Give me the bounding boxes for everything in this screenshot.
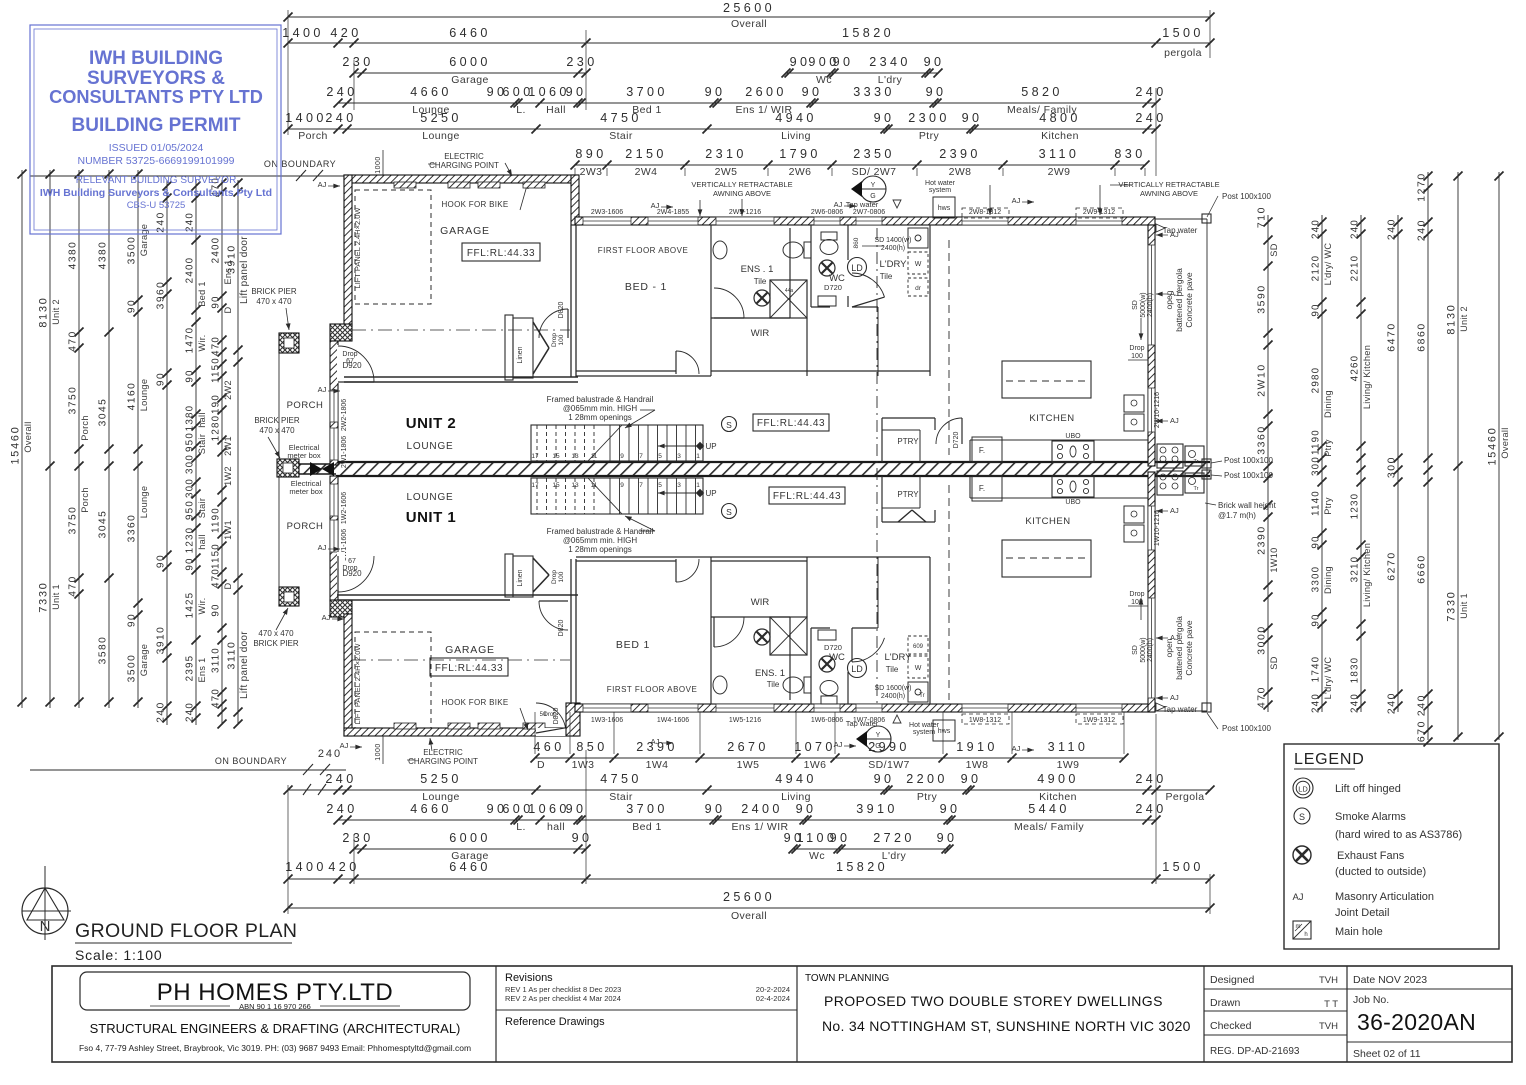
svg-text:1: 1 <box>696 453 700 460</box>
svg-text:(hard wired to as AS3786): (hard wired to as AS3786) <box>1335 829 1462 841</box>
svg-text:PTRY: PTRY <box>897 490 919 499</box>
unit 1 room label ENS.1 <box>755 668 785 689</box>
unit 1 ptry room <box>882 476 935 522</box>
unit 1 entry door D920 <box>337 552 374 592</box>
building permit stamp box <box>30 25 281 234</box>
svg-text:9: 9 <box>620 482 624 489</box>
svg-text:1W10: 1W10 <box>1269 547 1279 572</box>
svg-text:460: 460 <box>533 740 564 754</box>
svg-text:90: 90 <box>1311 303 1322 316</box>
svg-text:L'dry/ WC: L'dry/ WC <box>1323 243 1333 286</box>
svg-text:11: 11 <box>591 482 598 489</box>
svg-text:RELEVANT BUILDING SURVEYOR: RELEVANT BUILDING SURVEYOR <box>76 175 237 186</box>
svg-text:1740: 1740 <box>1311 656 1322 683</box>
dim row bottom wc/ldry line <box>789 845 954 854</box>
svg-text:1W4-1606: 1W4-1606 <box>657 717 689 724</box>
svg-text:240: 240 <box>326 802 357 816</box>
svg-text:44a: 44a <box>785 288 794 294</box>
svg-text:90: 90 <box>156 554 167 568</box>
svg-text:3045: 3045 <box>98 510 109 539</box>
svg-text:3110: 3110 <box>1048 740 1089 754</box>
svg-text:SD 1600(w): SD 1600(w) <box>875 685 912 692</box>
brick pier label top <box>251 287 297 330</box>
pergola posts middle <box>1202 459 1211 479</box>
svg-text:2W4: 2W4 <box>635 166 658 178</box>
svg-text:@065mm min. HIGH: @065mm min. HIGH <box>563 404 638 413</box>
dim col left lift panel door labels <box>226 179 251 729</box>
north arrow symbol <box>22 866 71 940</box>
unit 2 ffl label RL 44.43 <box>753 414 829 431</box>
unit 1 garage bottom wall piers <box>394 723 416 729</box>
svg-text:90: 90 <box>185 557 196 570</box>
svg-text:h: h <box>1304 932 1307 938</box>
svg-text:90: 90 <box>874 111 895 125</box>
svg-text:Tr: Tr <box>1194 459 1199 465</box>
svg-text:UNIT 2: UNIT 2 <box>406 415 457 432</box>
svg-text:Hall: Hall <box>546 104 566 116</box>
window dim extension lines <box>535 168 1145 754</box>
svg-text:6000: 6000 <box>449 55 491 69</box>
svg-text:AJ: AJ <box>1170 633 1179 642</box>
svg-text:1150: 1150 <box>211 357 222 383</box>
svg-text:2400(h): 2400(h) <box>1147 638 1154 662</box>
svg-text:REV 1 As per checklist 8 Dec: REV 1 As per checklist 8 Dec 2023 <box>505 985 621 994</box>
svg-text:Lounge: Lounge <box>139 486 149 518</box>
unit 2 wc toilet <box>820 232 838 255</box>
svg-text:NUMBER 53725-6669199101999: NUMBER 53725-6669199101999 <box>77 155 234 167</box>
unit 1 ens.1 basin <box>713 676 727 694</box>
unit 1 wc exhaust fan <box>819 656 835 672</box>
svg-text:1060: 1060 <box>528 802 570 816</box>
svg-text:1500: 1500 <box>1162 860 1204 874</box>
svg-text:240: 240 <box>1350 693 1361 713</box>
svg-text:2400(h): 2400(h) <box>1147 293 1154 317</box>
svg-text:Overall: Overall <box>1500 427 1510 458</box>
svg-text:470 x 470: 470 x 470 <box>258 629 294 638</box>
svg-text:300: 300 <box>1387 456 1398 478</box>
svg-text:7: 7 <box>639 482 643 489</box>
svg-text:Exhaust Fans: Exhaust Fans <box>1337 850 1405 862</box>
svg-text:Post 100x100: Post 100x100 <box>1224 456 1273 465</box>
svg-text:1 28mm openings: 1 28mm openings <box>568 413 632 422</box>
svg-text:LEGEND: LEGEND <box>1294 751 1365 768</box>
svg-text:Brick wall height: Brick wall height <box>1218 501 1277 510</box>
electrical meter box labels <box>287 443 334 496</box>
unit 2 ffl label RL 44.33 <box>462 243 540 261</box>
electric charging point label top <box>428 152 512 176</box>
svg-text:Concrete pave: Concrete pave <box>1184 272 1194 328</box>
unit 2 main top exterior wall <box>575 217 1155 225</box>
brick pier label bottom <box>253 608 299 648</box>
svg-text:Hot water: Hot water <box>909 722 940 729</box>
svg-text:609: 609 <box>913 644 924 650</box>
svg-text:PORCH: PORCH <box>287 400 324 411</box>
svg-text:S: S <box>726 507 732 517</box>
unit 2 ens.1 exhaust fan <box>754 290 770 306</box>
svg-text:T T: T T <box>1324 999 1338 1010</box>
svg-text:AJ: AJ <box>1170 289 1179 298</box>
svg-text:1070: 1070 <box>794 740 836 754</box>
svg-text:SD: SD <box>1132 300 1139 310</box>
svg-text:240: 240 <box>1135 85 1166 99</box>
svg-text:LD: LD <box>851 664 863 674</box>
tap water right unit 2 <box>1156 224 1198 235</box>
unit 2 bed wing left wall <box>571 225 576 377</box>
svg-text:4380: 4380 <box>98 241 109 270</box>
awning label left <box>691 180 792 216</box>
unit 1 corner pier at porch <box>330 600 352 617</box>
svg-text:WIR: WIR <box>751 597 770 608</box>
svg-text:1190: 1190 <box>211 507 222 533</box>
unit 2 kitchen island bench <box>1002 361 1091 398</box>
svg-text:L.: L. <box>516 104 526 116</box>
unit 2 corner pier at porch <box>330 324 352 341</box>
svg-text:90: 90 <box>961 772 982 786</box>
svg-text:1W3: 1W3 <box>572 759 595 771</box>
unit 1 fridge space F <box>972 476 1002 501</box>
svg-text:2390: 2390 <box>1257 525 1268 555</box>
svg-text:17: 17 <box>531 482 539 489</box>
unit 2 wc exhaust fan <box>819 260 835 276</box>
dim col right overall 15460 <box>1487 172 1511 742</box>
svg-text:AJ: AJ <box>318 180 327 189</box>
boundary line bottom with ON BOUNDARY label <box>30 748 346 775</box>
svg-text:S: S <box>1299 812 1305 822</box>
svg-text:UNIT 1: UNIT 1 <box>406 509 457 526</box>
svg-text:Bed 1: Bed 1 <box>197 281 207 307</box>
svg-text:13: 13 <box>571 482 579 489</box>
svg-text:HOOK FOR BIKE: HOOK FOR BIKE <box>441 200 508 209</box>
svg-text:CBS-U 53725: CBS-U 53725 <box>127 200 186 211</box>
svg-text:FFL:RL:44.43: FFL:RL:44.43 <box>757 418 825 429</box>
svg-text:2W5: 2W5 <box>715 166 738 178</box>
unit 2 kitchen bench along party wall <box>970 440 1148 462</box>
svg-text:470 x 470: 470 x 470 <box>259 426 295 435</box>
svg-text:3500: 3500 <box>127 654 138 683</box>
svg-text:240: 240 <box>1311 219 1322 239</box>
svg-text:AJ: AJ <box>340 741 349 750</box>
svg-text:6460: 6460 <box>449 26 491 40</box>
svg-text:Scale: 1:100: Scale: 1:100 <box>75 947 162 963</box>
svg-text:FFL:RL:44.33: FFL:RL:44.33 <box>435 663 503 674</box>
svg-text:Wc: Wc <box>809 850 825 862</box>
stamp text IWH BUILDING SURVEYORS & CONSULTANTS <box>49 48 263 107</box>
svg-text:2W6-0806: 2W6-0806 <box>811 209 843 216</box>
svg-text:L.: L. <box>516 821 526 833</box>
legend masonry articulation <box>1292 891 1434 919</box>
svg-text:Checked: Checked <box>1210 1020 1252 1032</box>
svg-text:ABN 90 1 16 970 266: ABN 90 1 16 970 266 <box>239 1002 311 1011</box>
svg-text:100: 100 <box>558 334 565 345</box>
svg-text:7330: 7330 <box>1446 590 1458 621</box>
svg-text:1W10-1216: 1W10-1216 <box>1154 510 1161 546</box>
svg-text:Garage: Garage <box>139 224 149 256</box>
svg-text:SD: SD <box>1132 645 1139 655</box>
svg-text:Tap water: Tap water <box>846 719 879 728</box>
pergola outline right <box>1155 219 1207 711</box>
svg-text:25600: 25600 <box>723 1 775 15</box>
dim row top windows 2W3-2W9 <box>571 147 1150 178</box>
svg-text:3910: 3910 <box>226 244 238 274</box>
svg-text:7: 7 <box>639 453 643 460</box>
svg-text:Drop: Drop <box>342 351 357 358</box>
svg-text:15820: 15820 <box>836 860 888 874</box>
svg-text:860: 860 <box>853 237 860 248</box>
svg-text:240: 240 <box>325 772 356 786</box>
svg-text:1W9: 1W9 <box>1057 759 1080 771</box>
svg-text:TVH: TVH <box>1319 1021 1338 1032</box>
svg-text:4660: 4660 <box>410 85 452 99</box>
svg-text:2310: 2310 <box>705 147 747 161</box>
svg-text:2W6: 2W6 <box>789 166 812 178</box>
stamp issued and number lines <box>77 142 234 167</box>
svg-text:1230: 1230 <box>1350 493 1361 520</box>
svg-text:02-4-2024: 02-4-2024 <box>756 994 790 1003</box>
hook for bike label bottom <box>441 698 528 730</box>
svg-text:1790: 1790 <box>779 147 821 161</box>
unit 2 room label UNIT 2 / LOUNGE <box>406 415 457 452</box>
unit 1 garage dash-dot datum lines <box>352 659 570 661</box>
svg-text:SD: SD <box>1269 243 1279 256</box>
svg-text:5: 5 <box>658 482 662 489</box>
svg-text:W: W <box>915 261 922 268</box>
svg-text:ENS . 1: ENS . 1 <box>741 264 774 275</box>
unit 2 ens.1 door D820 <box>714 288 744 318</box>
svg-text:Concrete pave: Concrete pave <box>1184 620 1194 676</box>
svg-text:1W8: 1W8 <box>966 759 989 771</box>
svg-text:240: 240 <box>156 211 167 233</box>
svg-text:15: 15 <box>552 482 560 489</box>
svg-text:AJ: AJ <box>651 201 660 210</box>
svg-text:1W8-1312: 1W8-1312 <box>969 717 1001 724</box>
svg-text:90: 90 <box>830 831 851 845</box>
svg-text:2150: 2150 <box>625 147 667 161</box>
extension lines top and bottom <box>288 10 1210 914</box>
svg-text:ISSUED 01/05/2024: ISSUED 01/05/2024 <box>109 142 204 154</box>
outdoor kitchen unit 2 <box>1157 444 1204 468</box>
unit 2 garage-lounge divider wall <box>344 377 578 382</box>
svg-text:F.: F. <box>979 484 985 493</box>
svg-text:Ptry: Ptry <box>919 130 940 142</box>
dim col left 3960/3910 <box>156 180 172 725</box>
svg-text:SURVEYORS &: SURVEYORS & <box>87 68 225 89</box>
svg-text:2400: 2400 <box>211 237 222 264</box>
svg-text:1400: 1400 <box>282 26 324 40</box>
svg-text:90: 90 <box>962 111 983 125</box>
svg-text:3750: 3750 <box>68 506 79 535</box>
svg-text:Meals/ Family: Meals/ Family <box>1014 821 1084 833</box>
unit 2 bed 1 south wall <box>576 351 711 376</box>
svg-text:Stair: Stair <box>197 498 207 518</box>
dim col right 6470/6270 <box>1387 215 1403 714</box>
svg-text:9: 9 <box>620 453 624 460</box>
svg-text:4380: 4380 <box>68 241 79 270</box>
svg-text:Unit 2: Unit 2 <box>51 299 61 325</box>
electric charging point label bottom <box>407 738 478 766</box>
svg-text:Wir.: Wir. <box>197 597 207 614</box>
unit 2 room label WC + D720 <box>824 273 845 292</box>
svg-text:@065mm min. HIGH: @065mm min. HIGH <box>563 536 638 545</box>
unit 1 kitchen sink at right wall <box>1124 506 1144 542</box>
svg-text:Drop: Drop <box>1129 345 1144 352</box>
unit 1 ens.1 door D720 <box>714 617 744 647</box>
svg-text:90: 90 <box>705 802 726 816</box>
unit 2 front wall with entry windows <box>330 341 338 465</box>
dim col right 4260/3210 <box>1350 215 1373 713</box>
svg-text:FFL:RL:44.43: FFL:RL:44.43 <box>773 491 841 502</box>
svg-text:BRICK PIER: BRICK PIER <box>254 416 300 425</box>
svg-text:Lift panel door: Lift panel door <box>239 631 250 699</box>
svg-text:240: 240 <box>1417 694 1428 716</box>
svg-text:950: 950 <box>185 500 196 520</box>
svg-text:(ducted to outside): (ducted to outside) <box>1335 866 1426 878</box>
open battened pergola label unit 1 <box>1164 616 1194 680</box>
unit 2 bulkhead dashed line <box>948 240 950 455</box>
svg-text:S: S <box>726 420 732 430</box>
svg-text:15460: 15460 <box>1487 426 1499 465</box>
svg-text:AJ: AJ <box>322 613 331 622</box>
svg-text:6860: 6860 <box>1417 322 1428 352</box>
unit 1 wc door lift-off hinge LD <box>848 628 885 678</box>
svg-text:Lift off hinged: Lift off hinged <box>1335 783 1401 795</box>
unit 1 room label UNIT 1 / LOUNGE <box>406 492 457 526</box>
svg-text:11: 11 <box>591 453 598 460</box>
svg-text:1400: 1400 <box>285 111 327 125</box>
gas water meter symbol bottom <box>856 726 891 752</box>
unit 1 right wall drop label <box>1128 591 1148 606</box>
svg-text:Y: Y <box>876 732 881 739</box>
svg-text:2210: 2210 <box>1350 255 1361 282</box>
unit 2 ptry room <box>882 418 962 462</box>
svg-text:Main hole: Main hole <box>1335 926 1383 938</box>
svg-text:Ptry: Ptry <box>1323 497 1333 515</box>
unit 2 wc walls <box>811 225 848 307</box>
svg-text:3960: 3960 <box>156 281 167 310</box>
svg-text:Lounge: Lounge <box>139 379 149 411</box>
svg-text:5: 5 <box>658 453 662 460</box>
svg-text:GARAGE: GARAGE <box>445 644 495 656</box>
svg-text:1W2: 1W2 <box>223 466 233 486</box>
dim col left bed/wir/hall/stair <box>185 180 208 725</box>
svg-text:3700: 3700 <box>626 802 668 816</box>
unit 2 right exterior wall <box>1148 225 1155 466</box>
svg-text:4160: 4160 <box>127 382 138 411</box>
svg-text:1: 1 <box>696 482 700 489</box>
aj markers right wall <box>1156 230 1179 702</box>
svg-text:1W9-1312: 1W9-1312 <box>1083 717 1115 724</box>
unit 1 ffl label RL 44.43 <box>769 487 845 504</box>
svg-text:100: 100 <box>558 571 565 582</box>
porch pier top <box>279 333 299 353</box>
dim col left overall 15460 <box>10 170 34 709</box>
svg-text:hws: hws <box>938 205 951 212</box>
unit 1 bed wing left wall <box>571 559 576 704</box>
unit 1 bottom wall windows 1W3-1W9 <box>583 704 631 712</box>
svg-text:4750: 4750 <box>600 772 642 786</box>
svg-text:Kitchen: Kitchen <box>1041 130 1079 142</box>
svg-text:Garage: Garage <box>139 644 149 676</box>
svg-text:4750: 4750 <box>600 111 642 125</box>
svg-text:470: 470 <box>68 330 79 352</box>
svg-text:470: 470 <box>211 336 222 356</box>
awning dashed boxes at windows <box>962 208 1123 724</box>
svg-text:230: 230 <box>342 55 373 69</box>
svg-text:4800: 4800 <box>1039 111 1081 125</box>
unit 1 garage-lounge divider wall <box>337 595 578 600</box>
svg-text:470: 470 <box>211 688 222 708</box>
svg-text:LOUNGE: LOUNGE <box>406 492 453 503</box>
boundary break marks bottom <box>303 784 326 795</box>
svg-text:Stair: Stair <box>609 130 633 142</box>
svg-text:1280: 1280 <box>211 415 222 442</box>
svg-text:5250: 5250 <box>420 772 462 786</box>
svg-text:5820: 5820 <box>1021 85 1063 99</box>
svg-text:8130: 8130 <box>38 296 50 327</box>
svg-text:3000: 3000 <box>1257 625 1268 655</box>
svg-text:Bed 1: Bed 1 <box>632 821 661 833</box>
svg-text:N: N <box>40 918 51 935</box>
revisions block <box>496 972 797 1028</box>
svg-text:Ens 1/ WIR: Ens 1/ WIR <box>731 821 788 833</box>
svg-text:Drop: Drop <box>342 565 357 572</box>
svg-text:4940: 4940 <box>775 772 817 786</box>
unit 1 room label WC + D720 <box>824 643 845 663</box>
svg-text:CHARGING POINT: CHARGING POINT <box>408 757 478 766</box>
svg-text:HOOK FOR BIKE: HOOK FOR BIKE <box>441 698 508 707</box>
svg-text:230: 230 <box>566 55 597 69</box>
svg-text:FIRST FLOOR ABOVE: FIRST FLOOR ABOVE <box>598 246 689 255</box>
svg-text:D820: D820 <box>558 302 565 319</box>
svg-text:2W3: 2W3 <box>580 166 603 178</box>
svg-text:Living/ Kitchen: Living/ Kitchen <box>1362 543 1372 607</box>
svg-text:REG. DP-AD-21693: REG. DP-AD-21693 <box>1210 1046 1300 1057</box>
svg-text:1W6-0806: 1W6-0806 <box>811 717 843 724</box>
aj markers left and top <box>318 180 1034 753</box>
svg-text:1470: 1470 <box>185 327 196 354</box>
svg-text:D720: D720 <box>824 283 842 292</box>
brick pier label middle <box>254 416 300 458</box>
porch pier middle <box>277 459 299 477</box>
svg-text:240: 240 <box>1387 218 1398 240</box>
svg-text:90: 90 <box>926 85 947 99</box>
svg-text:2200: 2200 <box>906 772 948 786</box>
svg-text:2W10-1216: 2W10-1216 <box>1154 392 1161 428</box>
dim col left 3500/4160 <box>127 170 150 709</box>
legend box <box>1284 744 1499 949</box>
svg-text:AJ: AJ <box>1170 230 1179 239</box>
svg-text:Tile: Tile <box>880 272 893 281</box>
svg-text:90: 90 <box>566 85 587 99</box>
svg-text:90: 90 <box>156 372 167 386</box>
dim col left window dims 2W1/2W2 <box>211 177 234 728</box>
svg-text:D720: D720 <box>824 643 842 652</box>
svg-text:Wir.: Wir. <box>197 334 207 351</box>
svg-text:90: 90 <box>127 299 138 313</box>
svg-text:D: D <box>223 582 233 589</box>
svg-text:1000: 1000 <box>375 156 382 174</box>
unit 2 wc basin <box>818 296 836 306</box>
svg-text:IWH BUILDING: IWH BUILDING <box>89 48 223 69</box>
svg-text:AJ: AJ <box>318 385 327 394</box>
svg-text:3700: 3700 <box>626 85 668 99</box>
svg-text:5250: 5250 <box>420 111 462 125</box>
svg-text:hall: hall <box>197 412 207 428</box>
boundary line top with ON BOUNDARY label <box>30 159 346 181</box>
svg-text:Ptry: Ptry <box>917 791 938 803</box>
dim row bottom room widths <box>326 802 1166 833</box>
svg-text:LIFT PANEL 2.4H×2.0W: LIFT PANEL 2.4H×2.0W <box>353 207 362 289</box>
svg-text:TOWN PLANNING: TOWN PLANNING <box>805 973 889 984</box>
